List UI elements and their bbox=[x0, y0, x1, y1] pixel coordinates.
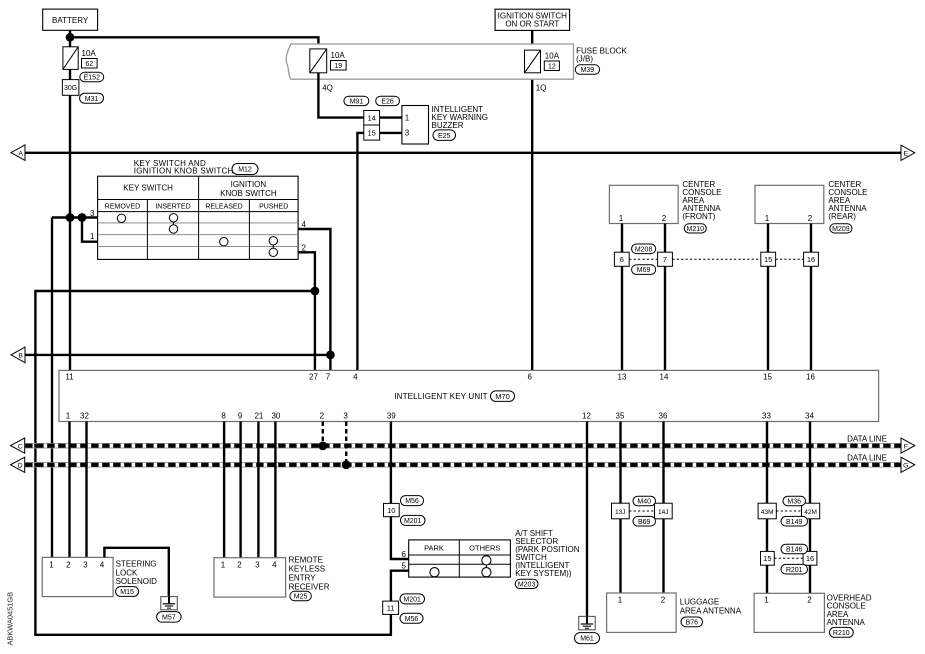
wire pin 39 to terminal 10 bbox=[390, 422, 392, 504]
connector 30G bbox=[62, 80, 79, 96]
svg-text:M203: M203 bbox=[518, 581, 536, 588]
node arrow B bbox=[11, 347, 25, 363]
svg-text:14: 14 bbox=[368, 114, 376, 123]
wire 15 down to pin 4 bbox=[357, 133, 363, 371]
node battery junction bbox=[66, 33, 75, 42]
svg-text:36: 36 bbox=[659, 411, 668, 420]
svg-text:1: 1 bbox=[405, 113, 410, 122]
svg-text:M39: M39 bbox=[581, 67, 595, 74]
svg-text:REMOVED: REMOVED bbox=[105, 203, 140, 210]
wire front antenna 2 to pin 14 bbox=[664, 224, 666, 371]
connector M31 bbox=[80, 93, 104, 103]
park switch contact circles bbox=[430, 556, 491, 577]
svg-text:19: 19 bbox=[334, 63, 342, 70]
wire pin 3 dashed stub bbox=[345, 422, 347, 465]
svg-text:INTELLIGENT KEY UNIT: INTELLIGENT KEY UNIT bbox=[394, 392, 487, 401]
svg-text:2: 2 bbox=[320, 411, 325, 420]
key switch table bbox=[98, 176, 299, 259]
svg-text:3: 3 bbox=[405, 129, 410, 138]
svg-text:62: 62 bbox=[85, 61, 93, 68]
connector M209 bbox=[830, 224, 852, 233]
svg-text:1: 1 bbox=[221, 561, 226, 570]
svg-text:M210: M210 bbox=[687, 226, 705, 233]
svg-text:1: 1 bbox=[618, 596, 623, 605]
svg-text:SOLENOID: SOLENOID bbox=[116, 577, 158, 586]
svg-text:39: 39 bbox=[387, 411, 396, 420]
svg-text:16: 16 bbox=[806, 554, 814, 563]
svg-text:1: 1 bbox=[49, 560, 54, 569]
connector M201 upper bbox=[401, 515, 426, 525]
svg-text:KEY SWITCH: KEY SWITCH bbox=[123, 184, 173, 193]
node dot branch t1 bbox=[78, 213, 87, 222]
wire branch to left drop bbox=[35, 291, 391, 635]
svg-text:M208: M208 bbox=[635, 246, 653, 253]
fuse block J/B bbox=[286, 44, 627, 79]
svg-text:STEERING: STEERING bbox=[116, 560, 157, 569]
svg-text:1: 1 bbox=[765, 214, 770, 223]
svg-text:11: 11 bbox=[387, 604, 395, 613]
svg-text:B149: B149 bbox=[786, 519, 802, 526]
wire pin 35 to luggage antenna 1 bbox=[619, 422, 621, 594]
svg-text:PUSHED: PUSHED bbox=[259, 203, 288, 210]
svg-text:2: 2 bbox=[662, 214, 667, 223]
svg-text:12: 12 bbox=[582, 411, 591, 420]
svg-text:13J: 13J bbox=[615, 509, 625, 516]
svg-text:ON OR START: ON OR START bbox=[505, 20, 559, 29]
svg-text:A: A bbox=[18, 150, 23, 157]
terminal 15 overhead bbox=[761, 551, 775, 565]
svg-text:(J/B): (J/B) bbox=[576, 55, 593, 64]
wire battery main vertical bbox=[69, 30, 71, 47]
connector E26 bbox=[376, 96, 400, 105]
connector M40 bbox=[633, 496, 656, 506]
wire rear antenna 1 to pin 15 bbox=[767, 224, 769, 371]
svg-text:2: 2 bbox=[661, 596, 666, 605]
svg-text:32: 32 bbox=[80, 411, 89, 420]
wire terminal 4 to pin 7 bbox=[298, 229, 330, 370]
svg-text:42M: 42M bbox=[804, 509, 817, 516]
svg-text:B: B bbox=[18, 353, 23, 360]
svg-text:M201: M201 bbox=[404, 518, 422, 525]
svg-text:7: 7 bbox=[663, 255, 667, 264]
svg-text:E26: E26 bbox=[381, 99, 394, 106]
ignition switch box bbox=[495, 9, 569, 30]
node arrow F bbox=[901, 438, 915, 453]
wire pin 12 to ground M61 bbox=[586, 422, 588, 617]
connector M61 bbox=[575, 633, 600, 644]
svg-text:ENTRY: ENTRY bbox=[289, 574, 317, 583]
wire rear antenna 2 to pin 16 bbox=[810, 224, 812, 371]
wire pin 2 dashed stub bbox=[322, 422, 324, 446]
connector M36 bbox=[783, 496, 806, 506]
svg-text:4: 4 bbox=[272, 561, 277, 570]
key switch and ignition knob switch M12 title bbox=[134, 159, 258, 176]
svg-text:ABKWA0451GB: ABKWA0451GB bbox=[6, 592, 15, 646]
connector M208 bbox=[632, 244, 656, 254]
svg-text:10A: 10A bbox=[331, 51, 346, 60]
svg-text:3: 3 bbox=[343, 411, 348, 420]
svg-text:ANTENNA: ANTENNA bbox=[827, 618, 866, 627]
svg-text:M57: M57 bbox=[162, 615, 176, 622]
connector M203 bbox=[515, 579, 538, 588]
svg-text:M12: M12 bbox=[238, 167, 252, 174]
svg-text:BUZZER: BUZZER bbox=[432, 121, 464, 130]
svg-text:C: C bbox=[18, 443, 23, 450]
terminal 7 bbox=[658, 252, 673, 266]
wire terminal 10 to park switch 6 bbox=[391, 517, 409, 559]
svg-text:1: 1 bbox=[764, 596, 769, 605]
wire pin 1 to solenoid 2 bbox=[68, 422, 70, 558]
wire dashed 43M to 42M bbox=[776, 510, 801, 512]
wire park switch 5 to terminal 11 bbox=[391, 571, 409, 601]
svg-text:8: 8 bbox=[221, 411, 226, 420]
node arrow C bbox=[11, 438, 25, 453]
svg-text:(REAR): (REAR) bbox=[828, 212, 856, 221]
svg-text:30: 30 bbox=[271, 411, 280, 420]
wire pin 34 to overhead antenna 2 bbox=[809, 422, 811, 594]
connector B149 bbox=[781, 516, 808, 526]
connector M91 bbox=[344, 96, 369, 105]
svg-text:43M: 43M bbox=[761, 509, 774, 516]
terminal 10 bbox=[384, 503, 400, 516]
svg-text:B146: B146 bbox=[786, 547, 802, 554]
svg-text:10A: 10A bbox=[82, 49, 97, 58]
connector E25 bbox=[433, 130, 456, 141]
svg-text:RECEIVER: RECEIVER bbox=[289, 583, 330, 592]
svg-text:DATA LINE: DATA LINE bbox=[847, 453, 887, 462]
svg-text:F: F bbox=[904, 443, 908, 450]
svg-text:33: 33 bbox=[762, 411, 771, 420]
terminal 16 bbox=[804, 252, 819, 266]
svg-text:R210: R210 bbox=[833, 630, 850, 637]
ground M57 bbox=[161, 597, 178, 610]
svg-text:2: 2 bbox=[66, 560, 71, 569]
svg-text:B69: B69 bbox=[638, 519, 651, 526]
svg-text:M40: M40 bbox=[637, 499, 651, 506]
wire pin 21 to receiver 3 bbox=[257, 422, 259, 558]
battery box bbox=[43, 9, 98, 30]
svg-text:11: 11 bbox=[65, 372, 74, 381]
connector R201 bbox=[781, 564, 808, 574]
connector M57 bbox=[157, 612, 182, 623]
svg-text:35: 35 bbox=[616, 411, 625, 420]
node dot battery t3 bbox=[66, 213, 75, 222]
svg-text:1: 1 bbox=[66, 411, 71, 420]
wire t1 drop to solenoid 1 bbox=[51, 218, 53, 558]
wire pin 33 to overhead antenna 1 bbox=[766, 422, 768, 594]
op buzzer box E25 bbox=[402, 105, 488, 144]
wire terminal 2 to pin 27 bbox=[298, 252, 315, 370]
node arrow E bbox=[901, 145, 915, 160]
wire line A bbox=[25, 152, 901, 154]
svg-text:M70: M70 bbox=[495, 392, 510, 401]
svg-text:M31: M31 bbox=[85, 96, 99, 103]
svg-text:M56: M56 bbox=[405, 616, 419, 623]
svg-text:1: 1 bbox=[619, 214, 624, 223]
wire battery to fuse block bbox=[70, 37, 318, 49]
svg-text:10A: 10A bbox=[545, 52, 560, 61]
node arrow A bbox=[11, 145, 25, 161]
key switch contact circles bbox=[117, 214, 277, 257]
wire solenoid 4 to ground bbox=[104, 548, 168, 597]
svg-text:3: 3 bbox=[255, 561, 260, 570]
svg-text:21: 21 bbox=[254, 411, 263, 420]
connector M25 bbox=[290, 591, 311, 601]
svg-text:KEY SYSTEM)): KEY SYSTEM)) bbox=[515, 569, 572, 578]
connector M56 upper bbox=[401, 496, 424, 506]
svg-text:15: 15 bbox=[764, 255, 772, 264]
svg-text:15: 15 bbox=[368, 129, 376, 138]
svg-text:PARK: PARK bbox=[424, 544, 444, 553]
connector M56 lower bbox=[400, 613, 423, 623]
wire pin 32 to solenoid 3 bbox=[85, 422, 87, 558]
svg-text:30G: 30G bbox=[64, 85, 77, 92]
ground M61 bbox=[579, 616, 596, 629]
steering lock solenoid box M15 bbox=[42, 557, 157, 596]
wire dashed 6 to 7 bbox=[629, 258, 657, 260]
wire terminal 1 bbox=[82, 218, 98, 242]
center console area antenna rear box bbox=[755, 180, 868, 223]
wire 15 to buzzer pin 3 bbox=[380, 132, 402, 134]
svg-text:34: 34 bbox=[805, 411, 814, 420]
svg-text:RELEASED: RELEASED bbox=[205, 203, 242, 210]
svg-text:13: 13 bbox=[618, 372, 627, 381]
svg-text:4: 4 bbox=[100, 560, 105, 569]
svg-text:M201: M201 bbox=[403, 597, 421, 604]
connector M69 bbox=[632, 265, 656, 275]
svg-text:16: 16 bbox=[806, 372, 815, 381]
label a/t shift selector text bbox=[515, 529, 580, 578]
svg-text:INSERTED: INSERTED bbox=[155, 203, 190, 210]
wire data line D bbox=[25, 463, 901, 468]
svg-text:D: D bbox=[18, 463, 23, 470]
connector M201 lower bbox=[400, 594, 425, 604]
svg-text:M91: M91 bbox=[350, 99, 364, 106]
fuse 10A 62 bbox=[63, 47, 97, 70]
terminal 15 bbox=[761, 252, 776, 266]
svg-text:(FRONT): (FRONT) bbox=[682, 212, 715, 221]
svg-text:4: 4 bbox=[353, 372, 358, 381]
connector M15 bbox=[116, 587, 139, 597]
svg-text:16: 16 bbox=[807, 255, 815, 264]
wire pin 30 to receiver 4 bbox=[274, 422, 276, 558]
connector M39 bbox=[575, 65, 599, 75]
svg-text:M209: M209 bbox=[832, 226, 850, 233]
svg-text:3: 3 bbox=[83, 560, 88, 569]
terminal 15 bbox=[364, 125, 380, 140]
wire 1Q feed down to pin 6 bbox=[531, 73, 533, 371]
fuse 10A 19 bbox=[310, 49, 346, 73]
fuse 10A 12 bbox=[525, 50, 560, 73]
svg-text:2: 2 bbox=[237, 561, 242, 570]
svg-text:REMOTE: REMOTE bbox=[289, 556, 323, 565]
svg-text:5: 5 bbox=[402, 562, 407, 571]
svg-text:M15: M15 bbox=[120, 589, 134, 596]
svg-text:14: 14 bbox=[660, 372, 669, 381]
overhead console area antenna box R210 bbox=[754, 593, 872, 632]
svg-text:E25: E25 bbox=[438, 133, 451, 140]
svg-text:27: 27 bbox=[309, 372, 318, 381]
svg-text:14J: 14J bbox=[658, 509, 668, 516]
svg-text:R201: R201 bbox=[786, 567, 803, 574]
svg-text:OTHERS: OTHERS bbox=[469, 544, 500, 553]
terminal 16 overhead bbox=[803, 551, 817, 565]
svg-text:6: 6 bbox=[402, 550, 407, 559]
svg-text:M25: M25 bbox=[294, 594, 308, 601]
terminal 13J bbox=[612, 503, 630, 519]
svg-text:M69: M69 bbox=[637, 267, 651, 274]
connector R210 bbox=[829, 627, 853, 637]
svg-text:M61: M61 bbox=[580, 636, 594, 643]
svg-text:M36: M36 bbox=[787, 499, 801, 506]
svg-text:2: 2 bbox=[808, 214, 813, 223]
terminal 11 bbox=[383, 601, 399, 614]
svg-text:1: 1 bbox=[90, 232, 95, 241]
terminal 43M bbox=[758, 503, 776, 519]
terminal 42M bbox=[802, 503, 820, 519]
wire dashed 15 to 16 bbox=[776, 258, 804, 260]
svg-text:15: 15 bbox=[763, 372, 772, 381]
wire 4Q to terminal 14 bbox=[318, 73, 363, 118]
svg-text:BATTERY: BATTERY bbox=[52, 16, 89, 25]
terminal 14 bbox=[364, 111, 380, 126]
svg-text:15: 15 bbox=[763, 554, 771, 563]
connector B146 bbox=[781, 544, 808, 554]
wire 14 to buzzer pin 1 bbox=[380, 116, 402, 118]
wire line B bbox=[25, 354, 330, 356]
wire battery feed down to pin 11 bbox=[69, 69, 71, 370]
connector B76 bbox=[681, 617, 703, 627]
svg-text:IGNITION KNOB SWITCH: IGNITION KNOB SWITCH bbox=[134, 167, 234, 176]
node arrow D bbox=[11, 457, 25, 472]
wire pin 9 to receiver 2 bbox=[239, 422, 241, 558]
wire pin 36 to luggage antenna 2 bbox=[662, 422, 664, 594]
svg-text:2: 2 bbox=[807, 596, 812, 605]
node dot pin2 on C bbox=[318, 442, 327, 451]
svg-text:9: 9 bbox=[238, 411, 243, 420]
wire data line C bbox=[25, 443, 901, 448]
luggage area antenna box B76 bbox=[607, 593, 742, 632]
wire dashed 13J to 14J bbox=[629, 510, 654, 512]
wire pin 8 to receiver 1 bbox=[223, 422, 225, 558]
svg-text:4Q: 4Q bbox=[322, 83, 333, 92]
svg-text:KEYLESS: KEYLESS bbox=[289, 565, 325, 574]
svg-text:6: 6 bbox=[527, 372, 532, 381]
node arrow G bbox=[901, 457, 915, 472]
svg-text:IGNITION: IGNITION bbox=[231, 180, 267, 189]
svg-text:10: 10 bbox=[387, 506, 395, 515]
wire dotted 7 to 15 bbox=[672, 258, 760, 260]
wire terminal 3 battery feed bbox=[52, 216, 98, 218]
svg-text:6: 6 bbox=[620, 255, 624, 264]
svg-text:M56: M56 bbox=[405, 498, 419, 505]
svg-text:7: 7 bbox=[326, 372, 331, 381]
connector M210 bbox=[684, 224, 706, 233]
svg-text:1Q: 1Q bbox=[536, 83, 547, 92]
svg-text:B76: B76 bbox=[686, 619, 699, 626]
wire ignition to fuse bbox=[531, 30, 533, 50]
center console area antenna front box bbox=[609, 180, 721, 223]
terminal 14J bbox=[655, 503, 673, 519]
svg-text:LUGGAGE: LUGGAGE bbox=[680, 598, 720, 607]
svg-text:E: E bbox=[904, 150, 909, 157]
svg-text:E152: E152 bbox=[84, 75, 100, 82]
node dot B join bbox=[326, 351, 335, 360]
svg-text:DATA LINE: DATA LINE bbox=[847, 434, 887, 443]
connector B69 bbox=[633, 516, 656, 526]
connector E152 bbox=[80, 72, 104, 81]
op-amp intelligent key unit box M70 bbox=[59, 370, 879, 421]
wire front antenna 1 to pin 13 bbox=[621, 224, 623, 371]
svg-text:KNOB SWITCH: KNOB SWITCH bbox=[220, 189, 277, 198]
svg-text:12: 12 bbox=[548, 63, 556, 70]
node dot pin27 branch bbox=[311, 287, 320, 296]
terminal 6 bbox=[614, 252, 629, 266]
node dot pin3 on D bbox=[342, 460, 351, 469]
wire dashed 15 to 16 bbox=[774, 557, 803, 559]
svg-text:G: G bbox=[903, 463, 908, 470]
svg-text:AREA ANTENNA: AREA ANTENNA bbox=[680, 607, 742, 616]
a/t shift selector park position switch table M203 bbox=[409, 540, 511, 577]
remote keyless entry receiver box M25 bbox=[214, 556, 330, 598]
